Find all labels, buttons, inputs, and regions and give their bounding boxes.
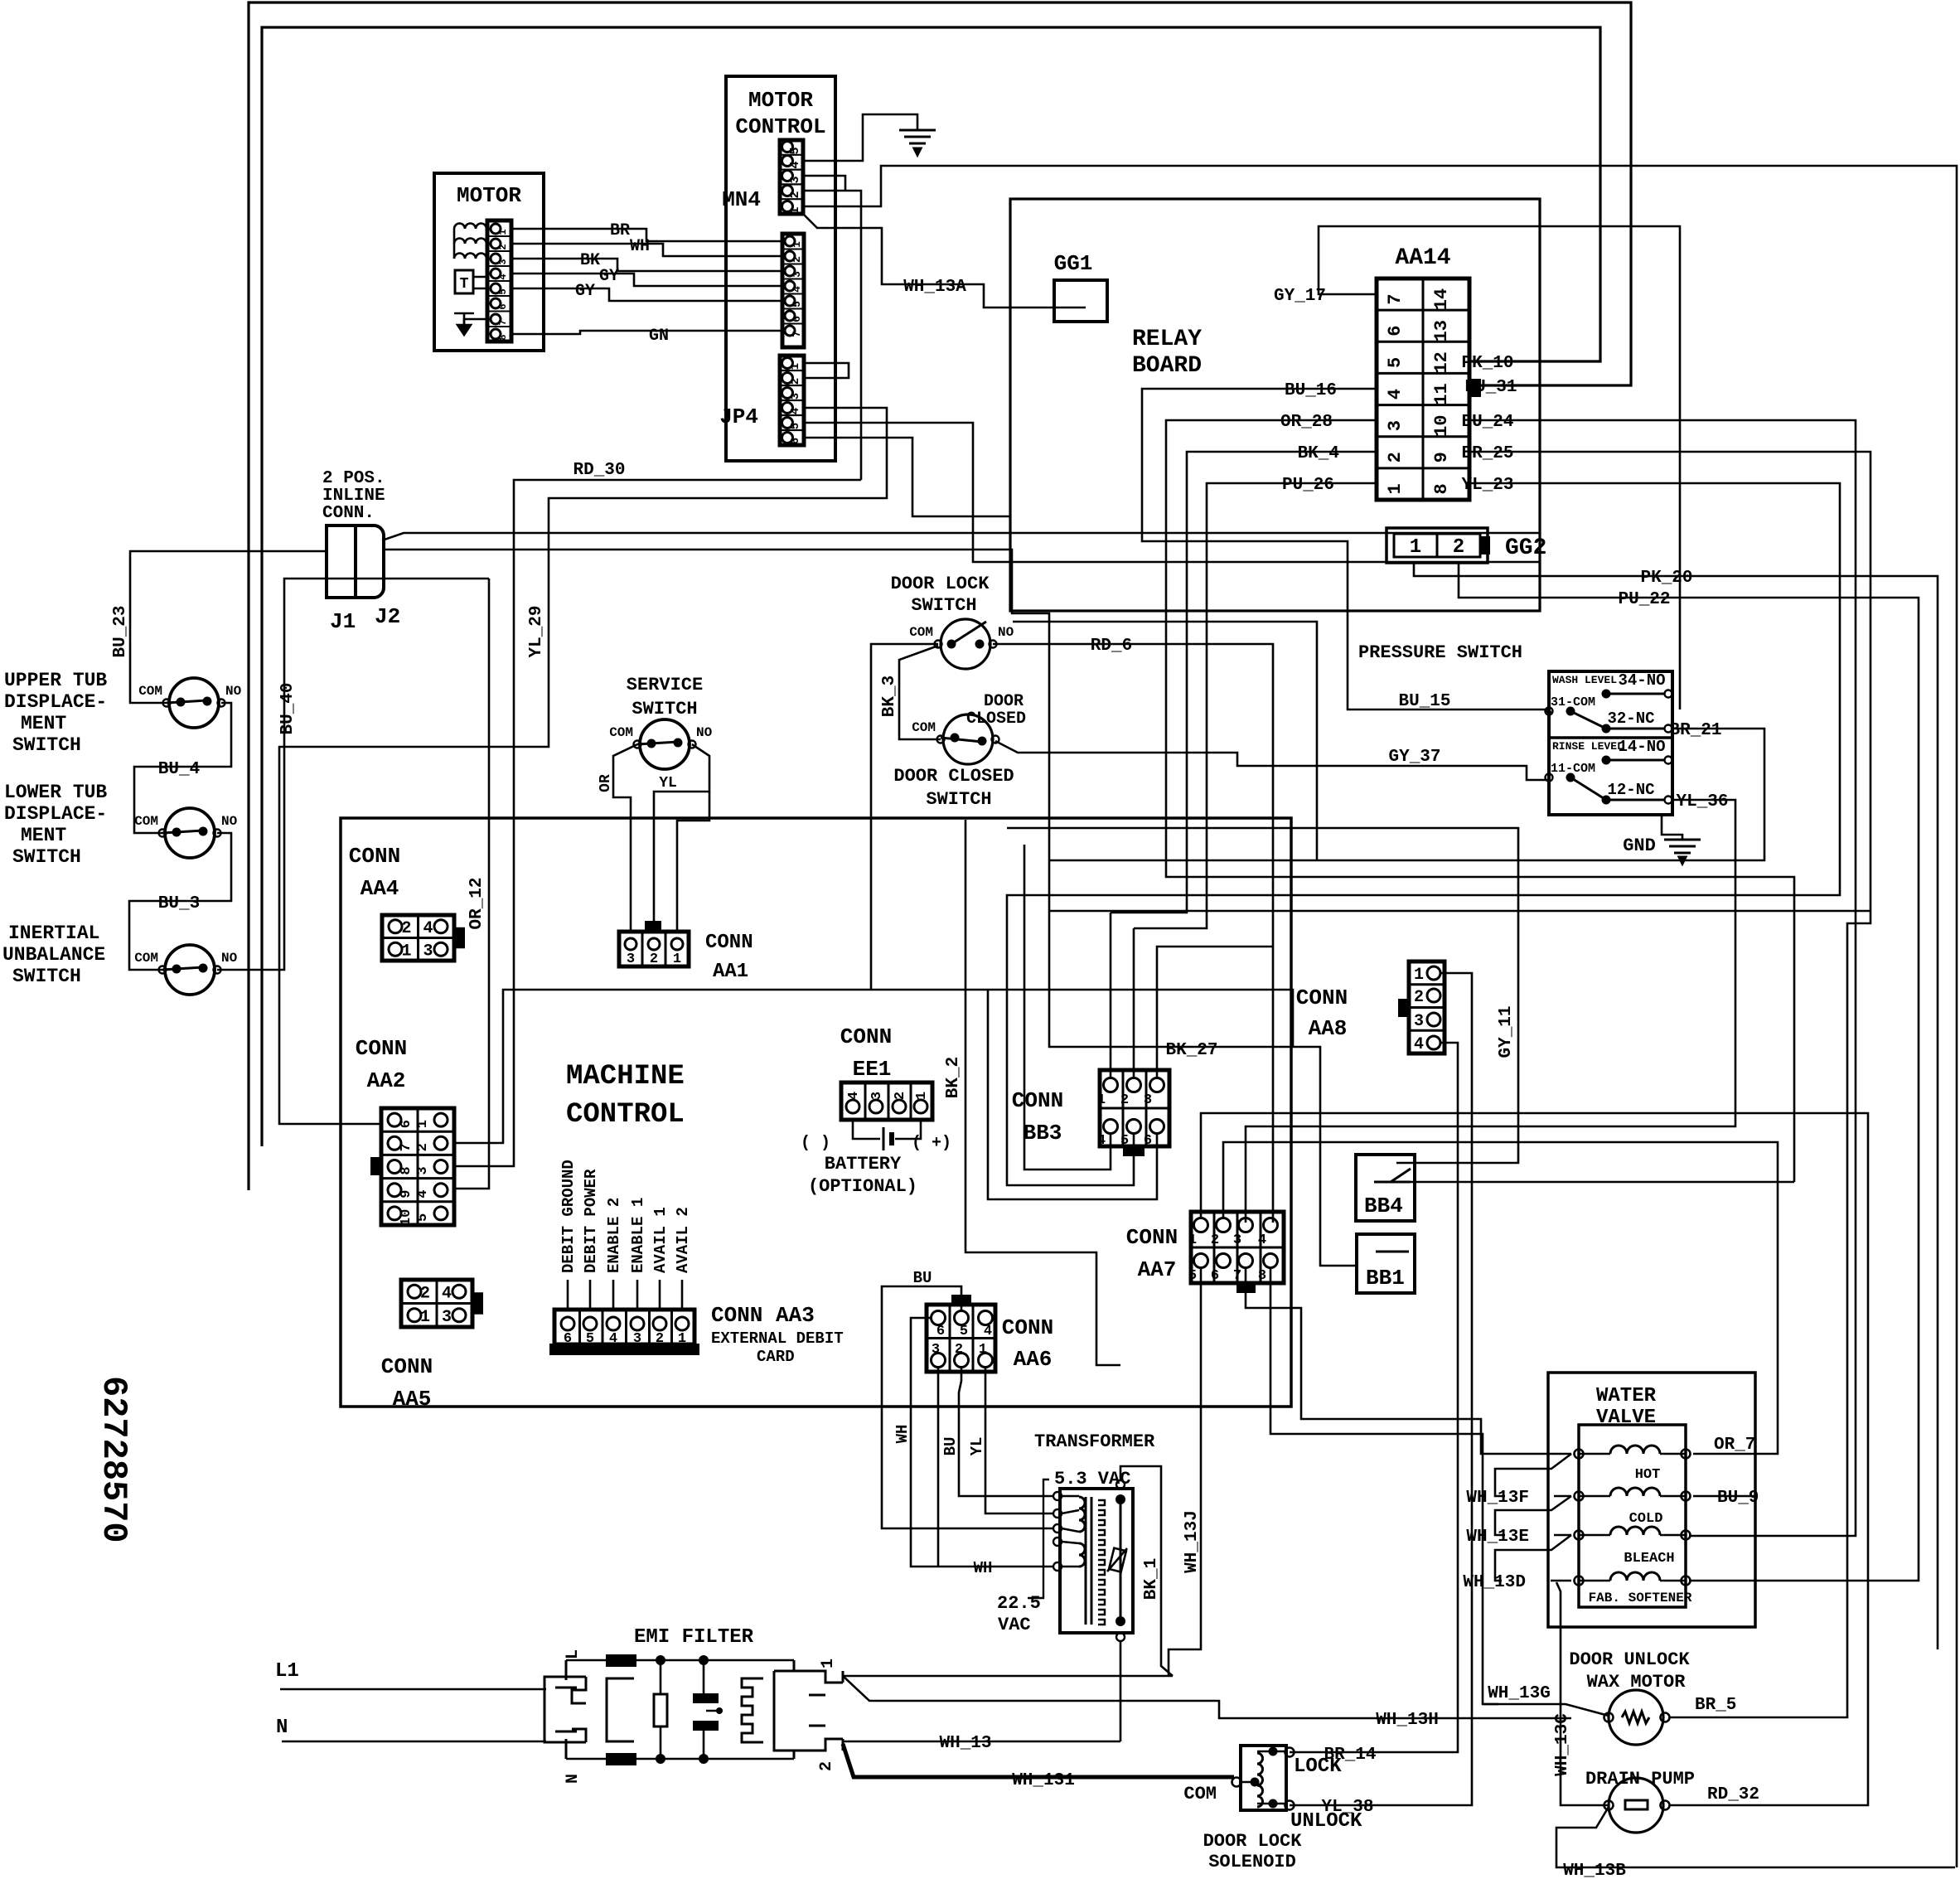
box GG1 xyxy=(1054,280,1107,322)
BB1 stub xyxy=(1376,1251,1409,1253)
svg-text:GG1: GG1 xyxy=(1054,251,1093,276)
svg-text:11: 11 xyxy=(1431,383,1452,404)
EMI cap leads xyxy=(704,1660,723,1759)
divider MN4 xyxy=(780,183,803,185)
EE1 pin 4 circ xyxy=(846,1100,859,1113)
svg-text:BU_23: BU_23 xyxy=(111,605,130,657)
svg-text:AA2: AA2 xyxy=(367,1068,406,1093)
32-NC line xyxy=(1606,728,1664,730)
connector AA6 outline xyxy=(927,1305,995,1372)
motor thermal T box xyxy=(455,270,473,293)
wire AA7 pin1 net xyxy=(1201,1113,1868,1805)
AA3 div xyxy=(670,1310,673,1344)
svg-text:SWITCH: SWITCH xyxy=(12,734,81,756)
AA7 pin 4 circ xyxy=(1264,1218,1278,1232)
pressure divider xyxy=(1549,736,1672,739)
transformer coil lower xyxy=(1079,1543,1085,1567)
5.3 VAC bracket xyxy=(1028,1479,1049,1598)
door closed right contact xyxy=(992,736,999,743)
svg-text:MOTOR: MOTOR xyxy=(748,88,813,113)
wire EMI out1 top xyxy=(843,1675,1173,1678)
divider MC7 xyxy=(782,264,804,265)
box pressure switch xyxy=(1549,671,1672,815)
wire BU_23 jog xyxy=(1010,550,1357,1266)
wire valve hot diag xyxy=(1495,1454,1571,1496)
wire GN xyxy=(511,331,782,334)
svg-text:VAC: VAC xyxy=(998,1615,1031,1635)
svg-text:AVAIL 1: AVAIL 1 xyxy=(651,1207,670,1273)
svg-text:BR_5: BR_5 xyxy=(1695,1696,1736,1715)
svg-text:2: 2 xyxy=(788,191,802,198)
AA8 row divider xyxy=(1409,1006,1445,1009)
svg-text:3: 3 xyxy=(1414,1012,1424,1031)
divider MN4 xyxy=(780,198,803,200)
svg-text:3: 3 xyxy=(791,271,803,278)
box MOTOR xyxy=(434,173,544,351)
svg-text:6: 6 xyxy=(1211,1268,1219,1284)
svg-text:3: 3 xyxy=(442,1308,452,1327)
pin MC7-1 xyxy=(785,236,795,246)
svg-text:WH_13: WH_13 xyxy=(939,1734,991,1753)
svg-text:BU_9: BU_9 xyxy=(1717,1489,1759,1508)
service switch contact dots xyxy=(647,739,656,748)
svg-text:MENT: MENT xyxy=(21,713,66,734)
svg-text:GND: GND xyxy=(1623,835,1656,856)
connector MN4 outline xyxy=(780,140,803,214)
svg-text:WH_13D: WH_13D xyxy=(1463,1573,1526,1592)
transformer secondary winding xyxy=(1098,1500,1105,1625)
svg-text:1: 1 xyxy=(788,206,802,214)
svg-text:BU: BU xyxy=(913,1269,932,1287)
AA2 pin 5 circ xyxy=(434,1207,448,1220)
pin MOTOR-4 xyxy=(491,269,501,278)
wire N line xyxy=(282,1741,546,1743)
AA6 pin 4 circ xyxy=(979,1311,993,1325)
AA14 column divider xyxy=(1422,278,1425,500)
AA6 pin 3 circ xyxy=(932,1354,946,1368)
connector EE1 outline xyxy=(841,1082,932,1120)
wire BU_40 xyxy=(217,579,489,970)
31-COM dot xyxy=(1566,707,1575,716)
11-COM dot xyxy=(1566,773,1575,782)
AA2 pin 1 circ xyxy=(434,1113,448,1126)
svg-text:3: 3 xyxy=(497,259,509,264)
12-NC line xyxy=(1606,799,1664,801)
svg-text:14-NO: 14-NO xyxy=(1618,738,1665,756)
AA8 notch xyxy=(1399,1000,1409,1016)
svg-text:BOARD: BOARD xyxy=(1132,353,1202,379)
AA4 pin4 circ xyxy=(434,920,448,933)
svg-text:6: 6 xyxy=(789,438,802,444)
AA3 pin 6 circ xyxy=(561,1317,574,1330)
solenoid LOCK contact xyxy=(1285,1748,1295,1757)
svg-text:AA5: AA5 xyxy=(393,1387,432,1412)
divider MC7 xyxy=(782,323,804,325)
divider MN4 xyxy=(780,154,803,156)
svg-text:COM: COM xyxy=(909,625,933,640)
connector AA7 outline xyxy=(1191,1212,1284,1283)
AA5 notch xyxy=(472,1293,482,1314)
door lock dots xyxy=(947,640,956,649)
AA3 pin 5 circ xyxy=(583,1317,597,1330)
AA3 div xyxy=(625,1310,627,1344)
wire BB3 pin5 wire xyxy=(1007,1085,1134,1185)
pin 11-COM xyxy=(1546,774,1553,782)
wire BU_23 through xyxy=(384,549,1010,551)
upper tub switch contact dots xyxy=(177,698,186,707)
pin MN4-2 xyxy=(782,186,793,196)
wire AA8 pin1 to YL_38 xyxy=(1290,973,1472,1805)
EE1 div xyxy=(888,1082,890,1120)
wire PK_10 net top run xyxy=(262,27,1600,1146)
wire BK_3 xyxy=(899,646,941,739)
AA8 row divider xyxy=(1409,1029,1445,1032)
svg-text:3: 3 xyxy=(627,952,635,967)
svg-text:3: 3 xyxy=(415,1166,431,1174)
pin MN4-3 xyxy=(782,171,793,182)
svg-text:7: 7 xyxy=(1385,293,1406,304)
svg-text:ENABLE 1: ENABLE 1 xyxy=(629,1198,647,1273)
switch circle service switch xyxy=(640,719,690,769)
pin MOTOR-7 xyxy=(491,314,501,324)
AA14 row divider xyxy=(1377,341,1469,343)
wire WH_13C xyxy=(1556,1582,1608,1805)
wire BU_24 xyxy=(1469,420,1856,1536)
wire PU_31 net top run xyxy=(249,2,1631,1190)
svg-text:4: 4 xyxy=(1385,389,1406,400)
pin MN4-4 xyxy=(782,156,793,167)
wire motor T to pin4 xyxy=(473,276,487,278)
transformer sec top contact xyxy=(1116,1480,1125,1489)
valve coil COLD xyxy=(1610,1488,1660,1496)
svg-text:9: 9 xyxy=(399,1190,414,1199)
box water valve outer xyxy=(1548,1373,1755,1627)
svg-text:1: 1 xyxy=(819,1659,838,1668)
AA3 div xyxy=(602,1310,604,1344)
switch circle inertial unbalance switch xyxy=(165,945,215,995)
wire AA6 pin3 wire xyxy=(937,1368,940,1567)
connector AA8 outline xyxy=(1409,961,1445,1053)
svg-text:4: 4 xyxy=(423,919,433,938)
AA4 notch xyxy=(454,928,464,948)
svg-text:AA1: AA1 xyxy=(713,961,748,983)
svg-text:SOLENOID: SOLENOID xyxy=(1208,1852,1296,1872)
svg-text:BU_16: BU_16 xyxy=(1285,381,1337,400)
AA6 pin 5 circ xyxy=(955,1311,969,1325)
pin 14-NO xyxy=(1665,757,1672,764)
wire battery lead neg xyxy=(853,1120,880,1139)
svg-text:BU_15: BU_15 xyxy=(1398,692,1450,711)
wire MN4 pin1 to WH_13 bus xyxy=(803,166,1957,1867)
svg-text:1: 1 xyxy=(1410,536,1421,559)
wire MN4 pin4 to ground xyxy=(803,114,917,161)
EMI cap bottom plate xyxy=(694,1722,718,1730)
svg-text:6: 6 xyxy=(1144,1133,1152,1149)
valve contact R COLD xyxy=(1682,1492,1691,1501)
svg-text:8: 8 xyxy=(497,334,509,340)
svg-text:PU_22: PU_22 xyxy=(1618,590,1670,609)
lower tub switch NO contact xyxy=(214,830,221,837)
svg-text:DOOR CLOSED: DOOR CLOSED xyxy=(893,766,1014,787)
EMI fuse top xyxy=(607,1655,636,1666)
svg-text:DISPLACE-: DISPLACE- xyxy=(4,803,107,825)
svg-text:BB1: BB1 xyxy=(1366,1266,1405,1291)
AA8 pin 2 circ xyxy=(1427,989,1440,1002)
valve contact R BLEACH xyxy=(1682,1531,1691,1540)
svg-text:YL_29: YL_29 xyxy=(527,605,546,657)
pin MOTOR-1 xyxy=(491,224,501,234)
wire valve cold diag xyxy=(1495,1496,1571,1535)
AA4 hdiv xyxy=(382,937,454,939)
AA3 div xyxy=(648,1310,651,1344)
svg-text:GY_17: GY_17 xyxy=(1274,287,1326,306)
svg-text:1: 1 xyxy=(678,1331,686,1347)
svg-text:CLOSED: CLOSED xyxy=(966,709,1026,729)
valve coil leads HOT xyxy=(1580,1453,1685,1455)
divider JP4 xyxy=(780,400,804,401)
AA5 pin1 circ xyxy=(408,1309,421,1322)
motor winding coil xyxy=(454,239,486,245)
wire service third xyxy=(677,792,709,932)
connector GG2 cells xyxy=(1394,534,1480,557)
svg-text:BU_24: BU_24 xyxy=(1461,413,1513,432)
AA2 row divider xyxy=(381,1177,454,1179)
wire door lock COM left xyxy=(871,644,938,989)
svg-text:7: 7 xyxy=(399,1143,414,1151)
box door lock solenoid xyxy=(1241,1746,1286,1810)
EMI cap mid dot xyxy=(716,1707,723,1714)
svg-text:OR_12: OR_12 xyxy=(467,877,486,929)
pin MC7-2 xyxy=(785,251,795,261)
svg-text:CONTROL: CONTROL xyxy=(735,114,825,139)
wire WH_131 xyxy=(843,1744,1234,1777)
AA1 pin1 xyxy=(671,938,683,950)
svg-text:3: 3 xyxy=(1385,420,1406,431)
AA4 vdiv xyxy=(417,915,419,961)
service switch blade xyxy=(637,742,678,744)
svg-text:COM: COM xyxy=(1183,1784,1217,1804)
wire BU_9 stub xyxy=(1693,1495,1755,1498)
AA3 pin 2 circ xyxy=(653,1317,666,1330)
svg-text:RD_6: RD_6 xyxy=(1091,637,1132,656)
svg-text:YL: YL xyxy=(968,1437,986,1456)
svg-text:COM: COM xyxy=(134,951,158,966)
solenoid UNLOCK contact xyxy=(1285,1801,1295,1810)
svg-text:4: 4 xyxy=(415,1190,431,1199)
svg-text:DOOR LOCK: DOOR LOCK xyxy=(891,574,990,594)
connector AA1 outline xyxy=(619,932,689,966)
door closed COM contact xyxy=(937,736,945,743)
svg-text:BU_3: BU_3 xyxy=(158,894,200,913)
pin MC7-7 xyxy=(785,326,795,336)
divider MC7 xyxy=(782,308,804,310)
wire AA2 pin2 net xyxy=(454,990,1293,1143)
svg-text:1: 1 xyxy=(401,942,411,961)
svg-text:22.5: 22.5 xyxy=(997,1593,1041,1614)
divider MOTOR-8 xyxy=(487,265,511,267)
svg-text:INLINE: INLINE xyxy=(322,487,385,506)
svg-text:3: 3 xyxy=(633,1331,641,1347)
svg-text:WH_13J: WH_13J xyxy=(1183,1510,1202,1573)
svg-text:WASH LEVEL: WASH LEVEL xyxy=(1552,674,1617,686)
wire WH_13B xyxy=(1556,1807,1955,1867)
svg-text:AA6: AA6 xyxy=(1014,1347,1053,1372)
svg-text:WH_131: WH_131 xyxy=(1012,1771,1075,1790)
box water valve coils xyxy=(1579,1425,1686,1607)
AA8 pin 3 circ xyxy=(1427,1013,1440,1026)
AA7 vdiv xyxy=(1213,1212,1216,1283)
svg-text:CONN: CONN xyxy=(840,1024,892,1049)
svg-text:AA8: AA8 xyxy=(1309,1016,1348,1041)
svg-text:5: 5 xyxy=(415,1213,431,1222)
drain pump circle xyxy=(1609,1778,1663,1833)
AA2 pin 6 circ xyxy=(388,1113,401,1126)
AA7 hdiv xyxy=(1191,1247,1284,1249)
AA6 hdiv xyxy=(927,1337,995,1339)
svg-text:WH_13E: WH_13E xyxy=(1466,1528,1529,1547)
transformer coil stubs xyxy=(1062,1496,1079,1567)
svg-text:TRANSFORMER: TRANSFORMER xyxy=(1034,1431,1155,1452)
BB3 pin 5 circ xyxy=(1127,1120,1141,1134)
wire BB3 pin1 riser xyxy=(1110,913,1112,1078)
svg-text:2: 2 xyxy=(1414,988,1424,1007)
wire RD_30 xyxy=(454,480,861,1166)
svg-text:2: 2 xyxy=(1211,1232,1219,1248)
connector AA14 outline xyxy=(1377,278,1469,500)
wire GY xyxy=(511,274,782,286)
svg-text:LOWER TUB: LOWER TUB xyxy=(4,782,107,803)
motor winding coil xyxy=(454,254,486,259)
svg-text:12-NC: 12-NC xyxy=(1607,781,1654,799)
box RELAY BOARD xyxy=(1010,199,1540,611)
valve coil leads FAB. SOFTENER xyxy=(1580,1580,1685,1582)
AA7 notch xyxy=(1237,1283,1255,1292)
svg-text:SERVICE: SERVICE xyxy=(627,675,703,695)
svg-text:NO: NO xyxy=(221,951,238,966)
svg-text:6: 6 xyxy=(497,303,509,309)
svg-text:DOOR: DOOR xyxy=(984,692,1024,711)
wire BB3 pin6 wire xyxy=(988,990,1157,1199)
svg-text:1: 1 xyxy=(791,241,803,248)
svg-text:3: 3 xyxy=(932,1342,940,1358)
AA3 signal lead AVAIL 2 xyxy=(681,1280,684,1310)
EE1 pin 3 circ xyxy=(869,1100,883,1113)
wire WH_13D xyxy=(1551,1580,1571,1582)
divider MOTOR-8 xyxy=(487,250,511,252)
svg-text:COM: COM xyxy=(609,725,633,740)
AA3 div xyxy=(578,1310,581,1344)
connector AA4 outline xyxy=(382,915,454,961)
AA2 row divider xyxy=(381,1131,454,1133)
svg-text:BR_21: BR_21 xyxy=(1669,721,1721,740)
svg-text:L: L xyxy=(564,1649,583,1659)
wash blade xyxy=(1570,711,1606,729)
svg-text:BK_1: BK_1 xyxy=(1142,1558,1161,1600)
door closed blade xyxy=(941,738,982,742)
BB3 vdiv1 xyxy=(1122,1070,1125,1146)
divider JP4 xyxy=(780,429,804,431)
svg-text:4: 4 xyxy=(846,1092,862,1100)
AA14 row divider xyxy=(1377,435,1469,438)
service switch COM contact xyxy=(634,741,641,748)
AA8 row divider xyxy=(1409,983,1445,986)
wire service OR xyxy=(613,744,637,932)
solenoid links xyxy=(1241,1751,1286,1804)
svg-text:1: 1 xyxy=(1385,483,1406,494)
AA7 vdiv xyxy=(1236,1212,1239,1283)
upper tub switch COM contact xyxy=(163,700,171,707)
svg-text:HOT: HOT xyxy=(1635,1467,1661,1483)
AA14 row divider xyxy=(1377,309,1469,312)
svg-text:N: N xyxy=(276,1717,288,1739)
valve contact R FAB. SOFTENER xyxy=(1682,1576,1691,1586)
ground symbol GND xyxy=(1664,840,1701,864)
svg-text:EE1: EE1 xyxy=(853,1057,892,1082)
svg-text:WH_13A: WH_13A xyxy=(903,278,966,297)
wire BK_2 xyxy=(965,820,1120,1365)
AA6 pin 1 circ xyxy=(979,1354,993,1368)
svg-text:BK: BK xyxy=(580,251,600,270)
svg-text:CONN: CONN xyxy=(349,844,400,869)
svg-text:32-NC: 32-NC xyxy=(1607,709,1654,728)
wire MN4 pin1 diagonal WH_13A xyxy=(803,214,1086,308)
inertial unbalance switch contact dots xyxy=(172,965,181,974)
wire YL_36 xyxy=(1246,800,1735,1223)
svg-text:SWITCH: SWITCH xyxy=(632,699,697,719)
transformer core xyxy=(1086,1497,1091,1625)
svg-text:GY_11: GY_11 xyxy=(1497,1005,1516,1058)
svg-text:NO: NO xyxy=(998,625,1014,640)
wire EMI bottom rail xyxy=(566,1758,794,1760)
svg-text:2: 2 xyxy=(415,1143,431,1151)
svg-text:PK_20: PK_20 xyxy=(1640,569,1692,588)
wire WH_13E xyxy=(1554,1534,1571,1537)
EMI out connector xyxy=(774,1660,843,1759)
wire BB3 pin3 riser xyxy=(1157,947,1273,1078)
AA1 notch xyxy=(646,922,661,932)
svg-text:DEBIT POWER: DEBIT POWER xyxy=(582,1169,600,1273)
wire PK_20 xyxy=(1414,563,1938,1649)
pin JP4-5 xyxy=(782,418,793,429)
svg-text:RD_30: RD_30 xyxy=(573,461,625,480)
wire AA7 pin2 net xyxy=(1223,1142,1778,1454)
AA2 row divider xyxy=(381,1200,454,1203)
svg-text:OR_28: OR_28 xyxy=(1280,413,1333,432)
wire AA7 pin8 net xyxy=(1270,1268,1498,1704)
svg-text:SWITCH: SWITCH xyxy=(926,789,991,810)
svg-text:5: 5 xyxy=(788,147,802,154)
box MACHINE CONTROL xyxy=(341,818,1291,1407)
AA8 pin 4 circ xyxy=(1427,1036,1440,1049)
AA1 div1 xyxy=(641,932,644,966)
divider JP4 xyxy=(780,385,804,386)
svg-text:8: 8 xyxy=(1431,483,1452,494)
AA7 pin 1 circ xyxy=(1194,1218,1208,1232)
svg-text:9: 9 xyxy=(1431,452,1452,462)
BB4 switch xyxy=(1374,1169,1411,1182)
wire BB3 pin4 wire xyxy=(1024,845,1111,1170)
svg-text:3: 3 xyxy=(1144,1092,1152,1108)
divider MN4 xyxy=(780,169,803,171)
svg-text:6: 6 xyxy=(564,1331,572,1347)
svg-text:AA14: AA14 xyxy=(1395,245,1450,271)
connector AA2 outline xyxy=(381,1108,454,1225)
svg-text:MENT: MENT xyxy=(21,825,66,846)
svg-text:BU: BU xyxy=(941,1437,960,1456)
34-NO dot xyxy=(1602,690,1611,699)
divider MOTOR-8 xyxy=(487,326,511,327)
door lock COM contact xyxy=(935,641,942,648)
